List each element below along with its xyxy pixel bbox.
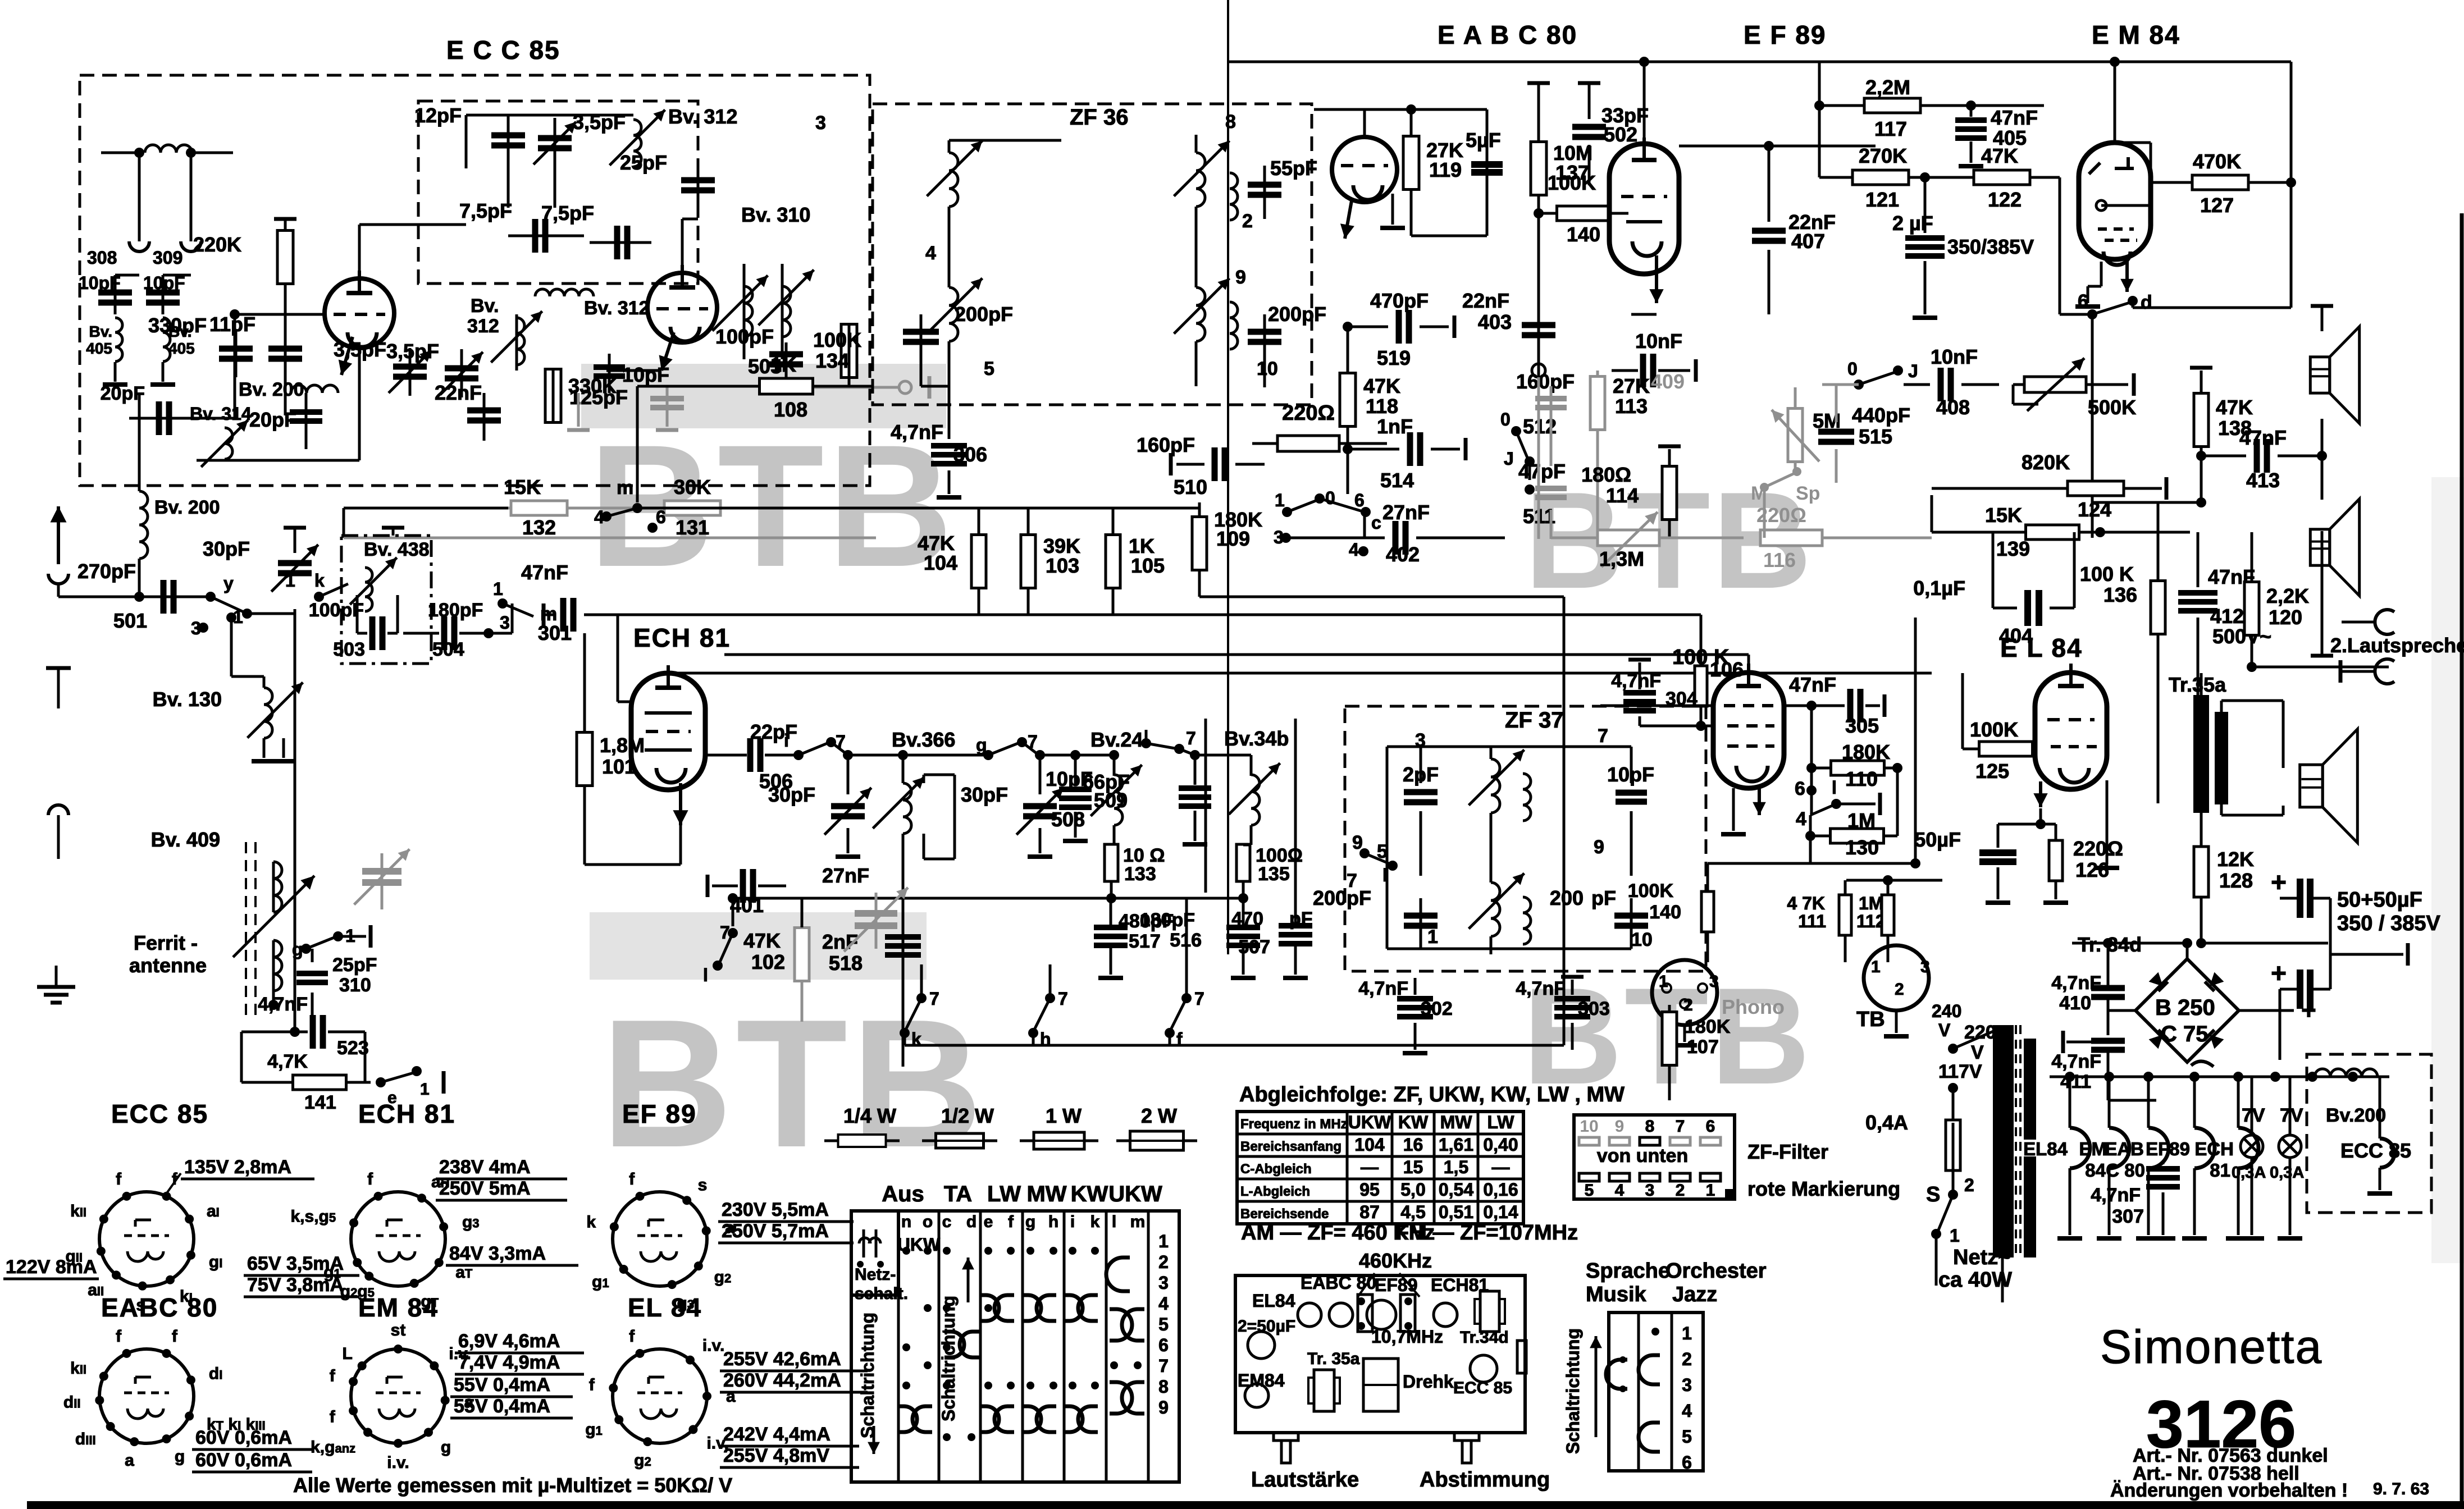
svg-text:510: 510	[1174, 475, 1207, 499]
svg-text:EF 89: EF 89	[622, 1099, 697, 1128]
svg-text:0,4A: 0,4A	[1865, 1111, 1908, 1134]
svg-text:KW: KW	[1071, 1182, 1108, 1206]
svg-text:306: 306	[953, 443, 987, 466]
svg-text:1,8M: 1,8M	[600, 734, 645, 757]
svg-text:111: 111	[1798, 911, 1826, 931]
svg-text:2 W: 2 W	[1141, 1104, 1177, 1127]
svg-text:f: f	[629, 1170, 635, 1188]
svg-text:255V 42,6mA: 255V 42,6mA	[723, 1348, 841, 1370]
svg-text:i: i	[784, 730, 789, 751]
svg-text:a: a	[125, 1451, 134, 1470]
svg-text:47nF: 47nF	[1789, 673, 1836, 696]
svg-text:E L 84: E L 84	[2000, 633, 2083, 662]
svg-text:6,9V 4,6mA: 6,9V 4,6mA	[458, 1330, 560, 1352]
svg-text:270pF: 270pF	[77, 560, 136, 583]
svg-text:1M: 1M	[1859, 893, 1883, 913]
svg-text:4,7nF: 4,7nF	[1611, 670, 1661, 692]
svg-text:Bv. 314: Bv. 314	[190, 404, 252, 424]
svg-text:J: J	[1504, 449, 1514, 469]
svg-text:Schaltrichtung: Schaltrichtung	[857, 1313, 878, 1438]
svg-text:f: f	[330, 1367, 336, 1385]
svg-text:ZF 36: ZF 36	[1070, 105, 1128, 130]
svg-text:470: 470	[1231, 908, 1263, 930]
svg-text:30pF: 30pF	[203, 537, 250, 560]
svg-text:+: +	[2301, 995, 2316, 1025]
svg-text:2.Lautsprecher: 2.Lautsprecher	[2330, 634, 2464, 657]
svg-text:250V 5mA: 250V 5mA	[439, 1178, 531, 1199]
svg-text:84V 3,3mA: 84V 3,3mA	[449, 1243, 546, 1264]
svg-text:Bv.366: Bv.366	[892, 728, 955, 751]
svg-text:7: 7	[929, 989, 939, 1009]
svg-text:27nF: 27nF	[822, 864, 869, 887]
svg-text:1: 1	[1682, 1323, 1692, 1343]
svg-text:k: k	[1090, 1213, 1100, 1231]
svg-text:EF89: EF89	[2146, 1138, 2190, 1159]
svg-text:Bv. 200: Bv. 200	[154, 497, 220, 518]
svg-text:5: 5	[1585, 1181, 1594, 1200]
svg-text:y: y	[223, 573, 234, 593]
svg-text:d: d	[966, 1213, 977, 1231]
svg-text:30pF: 30pF	[768, 783, 815, 806]
svg-text:350 / 385V: 350 / 385V	[2337, 912, 2440, 935]
svg-text:500V~: 500V~	[2212, 625, 2271, 648]
svg-text:104: 104	[924, 551, 957, 574]
svg-text:15: 15	[1403, 1157, 1423, 1177]
svg-text:Bv.24: Bv.24	[1090, 728, 1143, 751]
svg-text:4: 4	[925, 243, 936, 264]
svg-text:MW: MW	[1440, 1112, 1473, 1132]
svg-text:2: 2	[1682, 1349, 1692, 1369]
svg-text:7: 7	[1158, 1356, 1169, 1376]
svg-text:1/4 W: 1/4 W	[843, 1104, 896, 1127]
svg-text:250V 5,7mA: 250V 5,7mA	[722, 1220, 829, 1242]
svg-text:114: 114	[1606, 484, 1639, 507]
svg-text:200pF: 200pF	[1268, 303, 1326, 326]
svg-text:c: c	[942, 1213, 952, 1231]
svg-text:5: 5	[1158, 1314, 1169, 1334]
svg-text:ZF-Filter: ZF-Filter	[1747, 1140, 1828, 1163]
svg-text:307: 307	[2112, 1206, 2144, 1227]
svg-text:+: +	[2271, 959, 2287, 989]
svg-text:200pF: 200pF	[955, 303, 1013, 326]
svg-text:9: 9	[1158, 1397, 1169, 1417]
svg-text:100pF: 100pF	[309, 600, 364, 621]
svg-text:schalt.: schalt.	[855, 1284, 908, 1303]
svg-text:L: L	[342, 1345, 352, 1363]
svg-text:e: e	[984, 1213, 993, 1231]
svg-text:518: 518	[829, 952, 863, 975]
svg-text:84: 84	[2085, 1160, 2106, 1181]
svg-text:4,5: 4,5	[1400, 1202, 1425, 1222]
svg-text:20pF: 20pF	[249, 408, 296, 431]
svg-text:1: 1	[1706, 1181, 1715, 1200]
svg-text:FM — ZF=107MHz: FM — ZF=107MHz	[1396, 1221, 1578, 1245]
svg-text:ECH 81: ECH 81	[633, 623, 731, 652]
svg-text:Ferrit -: Ferrit -	[134, 931, 198, 954]
svg-text:405: 405	[86, 340, 112, 357]
svg-text:100 K: 100 K	[2080, 563, 2134, 586]
svg-text:3: 3	[1682, 1375, 1692, 1395]
svg-text:220Ω: 220Ω	[1282, 401, 1335, 425]
svg-text:f: f	[330, 1407, 336, 1426]
svg-text:—: —	[1361, 1157, 1379, 1177]
svg-text:502: 502	[1604, 123, 1637, 146]
svg-text:7V: 7V	[2242, 1105, 2265, 1126]
svg-text:255V 4,8mV: 255V 4,8mV	[723, 1445, 829, 1466]
svg-text:2: 2	[1964, 1175, 1974, 1195]
svg-text:10: 10	[1631, 929, 1653, 950]
svg-text:1 W: 1 W	[1046, 1104, 1082, 1127]
svg-text:4: 4	[1615, 1181, 1625, 1200]
svg-text:E A B C 80: E A B C 80	[1438, 20, 1577, 49]
svg-text:L-Abgleich: L-Abgleich	[1240, 1184, 1310, 1199]
svg-text:100K: 100K	[1970, 718, 2018, 741]
svg-text:7: 7	[1676, 1117, 1685, 1136]
svg-text:3: 3	[500, 612, 510, 633]
svg-text:TA: TA	[944, 1182, 972, 1206]
svg-text:47nF: 47nF	[521, 561, 568, 584]
svg-text:E C C 85: E C C 85	[446, 35, 560, 65]
svg-text:303: 303	[1578, 998, 1610, 1019]
svg-text:220Ω: 220Ω	[2073, 837, 2123, 860]
svg-text:—: —	[1492, 1157, 1510, 1177]
svg-text:132: 132	[522, 516, 556, 539]
svg-text:Bv.: Bv.	[471, 295, 499, 317]
svg-text:4,7nF: 4,7nF	[258, 994, 308, 1015]
svg-text:n: n	[901, 1213, 911, 1231]
svg-text:ECC 85: ECC 85	[111, 1099, 208, 1128]
svg-text:350/385V: 350/385V	[1947, 235, 2034, 258]
svg-text:7: 7	[1194, 989, 1204, 1009]
svg-text:Bv. 438: Bv. 438	[364, 539, 430, 560]
svg-text:10pF: 10pF	[622, 363, 669, 386]
svg-text:100pF: 100pF	[715, 325, 774, 348]
svg-text:V: V	[1971, 1042, 1984, 1063]
svg-text:47K: 47K	[1981, 144, 2018, 167]
svg-text:15K: 15K	[504, 475, 541, 499]
svg-text:EABC 80: EABC 80	[1301, 1273, 1376, 1293]
svg-text:Bv.200: Bv.200	[2326, 1105, 2386, 1126]
svg-text:238V 4mA: 238V 4mA	[439, 1156, 531, 1178]
svg-text:st: st	[391, 1321, 406, 1339]
svg-text:308: 308	[87, 248, 117, 268]
svg-text:1K: 1K	[770, 353, 796, 376]
svg-text:Abstimmung: Abstimmung	[1420, 1468, 1550, 1492]
svg-text:1: 1	[1659, 972, 1668, 991]
svg-text:2: 2	[1242, 211, 1253, 232]
svg-text:8: 8	[1645, 1117, 1655, 1136]
svg-text:1: 1	[1158, 1231, 1169, 1251]
svg-text:470K: 470K	[2193, 150, 2241, 173]
svg-text:408: 408	[1936, 396, 1970, 419]
svg-text:4: 4	[1682, 1401, 1692, 1421]
svg-text:6: 6	[1354, 490, 1365, 510]
svg-text:10nF: 10nF	[1635, 330, 1682, 353]
svg-text:EL84: EL84	[1252, 1291, 1295, 1311]
svg-text:230V 5,5mA: 230V 5,5mA	[722, 1199, 829, 1220]
svg-text:EF89: EF89	[1375, 1275, 1417, 1295]
svg-text:50+50µF: 50+50µF	[2337, 888, 2422, 912]
svg-text:8: 8	[1158, 1377, 1169, 1397]
svg-text:122V 8mA: 122V 8mA	[6, 1256, 97, 1278]
svg-text:9: 9	[1615, 1117, 1625, 1136]
svg-text:2 µF: 2 µF	[1892, 212, 1933, 235]
svg-text:47K: 47K	[743, 929, 781, 952]
svg-text:135: 135	[1258, 863, 1290, 885]
svg-text:60V 0,6mA: 60V 0,6mA	[195, 1449, 292, 1471]
svg-text:119: 119	[1429, 158, 1462, 181]
svg-text:Abgleichfolge: ZF, UKW, KW,: Abgleichfolge: ZF, UKW, KW, LW , MW	[1239, 1083, 1625, 1106]
svg-text:l: l	[1832, 778, 1837, 798]
svg-text:J: J	[1908, 361, 1918, 381]
svg-text:c: c	[1371, 513, 1381, 533]
svg-text:8: 8	[1225, 111, 1236, 132]
svg-text:Bv.: Bv.	[89, 323, 113, 340]
svg-text:55pF: 55pF	[1270, 157, 1317, 180]
svg-text:105: 105	[1131, 554, 1165, 577]
svg-text:820K: 820K	[2022, 451, 2070, 474]
svg-text:Bv. 312: Bv. 312	[584, 298, 650, 319]
svg-text:antenne: antenne	[129, 954, 207, 977]
svg-text:113: 113	[1615, 395, 1648, 418]
svg-text:25pF: 25pF	[332, 954, 377, 976]
svg-text:Simonetta: Simonetta	[2100, 1320, 2322, 1373]
svg-text:UKW: UKW	[1108, 1182, 1162, 1206]
svg-text:4,7nF: 4,7nF	[891, 420, 943, 443]
svg-text:Jazz: Jazz	[1672, 1283, 1717, 1306]
svg-text:f: f	[116, 1170, 122, 1188]
svg-text:109: 109	[1216, 527, 1250, 550]
svg-text:Bereichsende: Bereichsende	[1240, 1206, 1329, 1222]
svg-text:Musik: Musik	[1586, 1283, 1647, 1306]
svg-text:f: f	[1008, 1213, 1014, 1231]
svg-text:C-Abgleich: C-Abgleich	[1240, 1162, 1312, 1177]
svg-text:Alle Werte gemessen mit µ-M: Alle Werte gemessen mit µ-Multizet = 50K…	[293, 1474, 732, 1497]
svg-text:EM 84: EM 84	[358, 1293, 439, 1322]
svg-text:103: 103	[1046, 554, 1079, 577]
svg-text:1,3M: 1,3M	[1599, 547, 1644, 570]
svg-text:1: 1	[1871, 958, 1881, 976]
svg-text:120: 120	[2269, 606, 2302, 629]
svg-text:3,5pF: 3,5pF	[386, 340, 439, 363]
svg-text:47nF: 47nF	[1991, 106, 2038, 129]
svg-text:60V 0,6mA: 60V 0,6mA	[195, 1427, 292, 1448]
svg-text:104: 104	[1354, 1135, 1385, 1155]
svg-text:3: 3	[815, 112, 826, 134]
svg-text:270K: 270K	[1859, 144, 1907, 167]
svg-text:6: 6	[2078, 291, 2088, 312]
svg-text:125: 125	[1975, 760, 2009, 783]
svg-text:121: 121	[1865, 188, 1899, 211]
svg-text:Aus: Aus	[882, 1182, 924, 1206]
svg-text:1/2 W: 1/2 W	[941, 1104, 994, 1127]
svg-text:100K: 100K	[1628, 880, 1674, 902]
svg-text:55V 0,4mA: 55V 0,4mA	[454, 1396, 550, 1417]
svg-text:160pF: 160pF	[1137, 433, 1195, 456]
svg-text:3: 3	[1920, 958, 1930, 976]
svg-text:Bv. 200: Bv. 200	[239, 379, 304, 400]
svg-text:515: 515	[1859, 425, 1892, 448]
svg-text:1: 1	[1275, 490, 1285, 510]
svg-text:200: 200	[1550, 886, 1584, 909]
svg-text:1,61: 1,61	[1439, 1135, 1473, 1155]
svg-text:5: 5	[1682, 1426, 1692, 1447]
svg-text:1: 1	[493, 579, 503, 599]
svg-text:0,51: 0,51	[1439, 1202, 1473, 1222]
svg-text:2: 2	[1158, 1252, 1169, 1272]
svg-text:7,4V 4,9mA: 7,4V 4,9mA	[458, 1352, 560, 1373]
svg-text:87: 87	[1359, 1202, 1380, 1222]
svg-text:127: 127	[2200, 194, 2234, 217]
svg-text:6: 6	[1158, 1335, 1169, 1355]
svg-text:EAB: EAB	[2105, 1138, 2144, 1159]
svg-text:Bereichsanfang: Bereichsanfang	[1240, 1139, 1341, 1154]
svg-text:2,2M: 2,2M	[1865, 76, 1910, 99]
svg-text:1,5: 1,5	[1444, 1157, 1468, 1177]
svg-text:220K: 220K	[193, 233, 241, 256]
svg-text:4: 4	[1349, 539, 1359, 560]
svg-text:f: f	[367, 1170, 373, 1188]
svg-text:Lautstärke: Lautstärke	[1251, 1468, 1359, 1492]
svg-text:1: 1	[1950, 1226, 1960, 1246]
svg-text:102: 102	[751, 950, 785, 973]
svg-text:312: 312	[467, 315, 499, 337]
svg-text:S: S	[1926, 1183, 1940, 1206]
svg-text:B 250: B 250	[2155, 995, 2215, 1020]
svg-text:7V: 7V	[2280, 1105, 2303, 1126]
svg-text:130: 130	[1845, 836, 1879, 859]
svg-text:Änderungen vorbehalten !: Änderungen vorbehalten !	[2110, 1480, 2348, 1501]
svg-text:Bv. 312: Bv. 312	[668, 105, 737, 128]
svg-text:f: f	[116, 1327, 122, 1346]
svg-text:TB: TB	[1856, 1008, 1885, 1031]
svg-text:1: 1	[1427, 926, 1438, 948]
svg-text:7: 7	[1058, 989, 1068, 1009]
svg-text:12pF: 12pF	[414, 104, 462, 127]
svg-text:s: s	[698, 1176, 708, 1194]
svg-text:240: 240	[1932, 1001, 1961, 1021]
svg-text:309: 309	[153, 248, 182, 268]
svg-text:Schaltrichtung: Schaltrichtung	[1563, 1328, 1583, 1454]
svg-text:pF: pF	[1289, 908, 1313, 930]
svg-text:4,7K: 4,7K	[267, 1051, 308, 1072]
svg-text:407: 407	[1791, 230, 1825, 253]
svg-text:302: 302	[1421, 998, 1453, 1019]
svg-text:47nF: 47nF	[2239, 426, 2287, 449]
svg-text:g: g	[441, 1438, 451, 1456]
svg-text:6: 6	[1706, 1117, 1715, 1136]
svg-text:l: l	[703, 965, 708, 985]
svg-text:134: 134	[815, 349, 849, 372]
svg-text:Frequenz in MHz: Frequenz in MHz	[1240, 1117, 1348, 1132]
svg-text:301: 301	[538, 621, 572, 644]
svg-text:180K: 180K	[1685, 1016, 1731, 1037]
svg-text:ECH: ECH	[2194, 1138, 2234, 1159]
svg-text:122: 122	[1988, 188, 2022, 211]
svg-text:5: 5	[984, 358, 994, 379]
svg-text:200pF: 200pF	[1313, 886, 1371, 909]
svg-text:503: 503	[333, 639, 365, 660]
svg-text:0: 0	[1847, 359, 1858, 379]
svg-text:2,2K: 2,2K	[2266, 584, 2309, 607]
svg-text:75V 3,8mA: 75V 3,8mA	[247, 1274, 344, 1296]
svg-text:10nF: 10nF	[1931, 345, 1978, 368]
svg-text:310: 310	[339, 975, 371, 996]
svg-text:411: 411	[2060, 1071, 2091, 1092]
svg-text:BTB: BTB	[601, 981, 986, 1185]
svg-text:100K: 100K	[1548, 171, 1596, 194]
svg-text:5µF: 5µF	[1466, 129, 1501, 152]
svg-text:100K: 100K	[813, 328, 861, 351]
svg-text:7,5pF: 7,5pF	[541, 202, 594, 225]
svg-text:107: 107	[1687, 1036, 1719, 1058]
svg-text:136: 136	[2103, 583, 2137, 606]
svg-text:0: 0	[1325, 488, 1335, 508]
svg-text:260V 44,2mA: 260V 44,2mA	[723, 1370, 841, 1391]
svg-text:500K: 500K	[2088, 396, 2136, 419]
svg-text:30K: 30K	[674, 475, 711, 499]
svg-text:118: 118	[1366, 395, 1398, 418]
svg-text:4,7nF: 4,7nF	[2091, 1185, 2141, 1206]
svg-text:117V: 117V	[1938, 1061, 1982, 1082]
svg-text:f: f	[629, 1327, 635, 1346]
svg-text:22nF: 22nF	[1462, 289, 1509, 312]
svg-text:330pF: 330pF	[148, 314, 207, 337]
svg-text:30pF: 30pF	[961, 783, 1008, 806]
svg-text:2: 2	[1676, 1181, 1685, 1200]
svg-text:140: 140	[1567, 223, 1600, 246]
svg-text:0,3A: 0,3A	[2270, 1164, 2304, 1182]
svg-text:1: 1	[285, 570, 295, 591]
svg-text:413: 413	[2246, 469, 2280, 492]
svg-text:ZF 37: ZF 37	[1505, 708, 1563, 733]
svg-text:Drehk.: Drehk.	[1403, 1371, 1459, 1392]
svg-text:EM84: EM84	[1238, 1370, 1285, 1391]
svg-text:0,40: 0,40	[1483, 1135, 1518, 1155]
svg-text:133: 133	[1124, 863, 1156, 885]
svg-text:65V 3,5mA: 65V 3,5mA	[247, 1253, 344, 1274]
svg-text:9. 7. 63: 9. 7. 63	[2373, 1480, 2429, 1498]
svg-text:KW: KW	[1398, 1112, 1429, 1132]
svg-text:410: 410	[2059, 993, 2091, 1014]
svg-text:LW: LW	[987, 1182, 1021, 1206]
svg-text:0,1µF: 0,1µF	[1913, 577, 1965, 600]
svg-text:12K: 12K	[2217, 848, 2254, 871]
svg-text:i.v.: i.v.	[702, 1337, 724, 1355]
svg-text:27nF: 27nF	[1382, 501, 1430, 524]
svg-text:V: V	[1938, 1020, 1951, 1040]
svg-text:9: 9	[1235, 267, 1246, 288]
svg-text:m: m	[1130, 1213, 1146, 1231]
svg-text:4 7K: 4 7K	[1787, 893, 1825, 913]
svg-text:Bv. 409: Bv. 409	[151, 828, 220, 851]
svg-text:EL 84: EL 84	[628, 1293, 702, 1322]
svg-text:pF: pF	[1591, 886, 1616, 909]
svg-text:50µF: 50µF	[1914, 828, 1961, 851]
svg-text:131: 131	[676, 516, 709, 539]
svg-text:4: 4	[1158, 1293, 1169, 1314]
svg-text:180Ω: 180Ω	[1581, 463, 1631, 486]
svg-text:460KHz: 460KHz	[1359, 1249, 1432, 1272]
svg-text:7,5pF: 7,5pF	[459, 199, 512, 222]
svg-text:25pF: 25pF	[620, 151, 667, 174]
svg-text:UKW: UKW	[1348, 1112, 1391, 1132]
svg-text:LW: LW	[1487, 1112, 1515, 1132]
svg-text:440pF: 440pF	[1852, 404, 1910, 427]
svg-text:405: 405	[168, 340, 195, 357]
svg-text:3: 3	[1645, 1181, 1655, 1200]
svg-text:f: f	[172, 1327, 178, 1346]
